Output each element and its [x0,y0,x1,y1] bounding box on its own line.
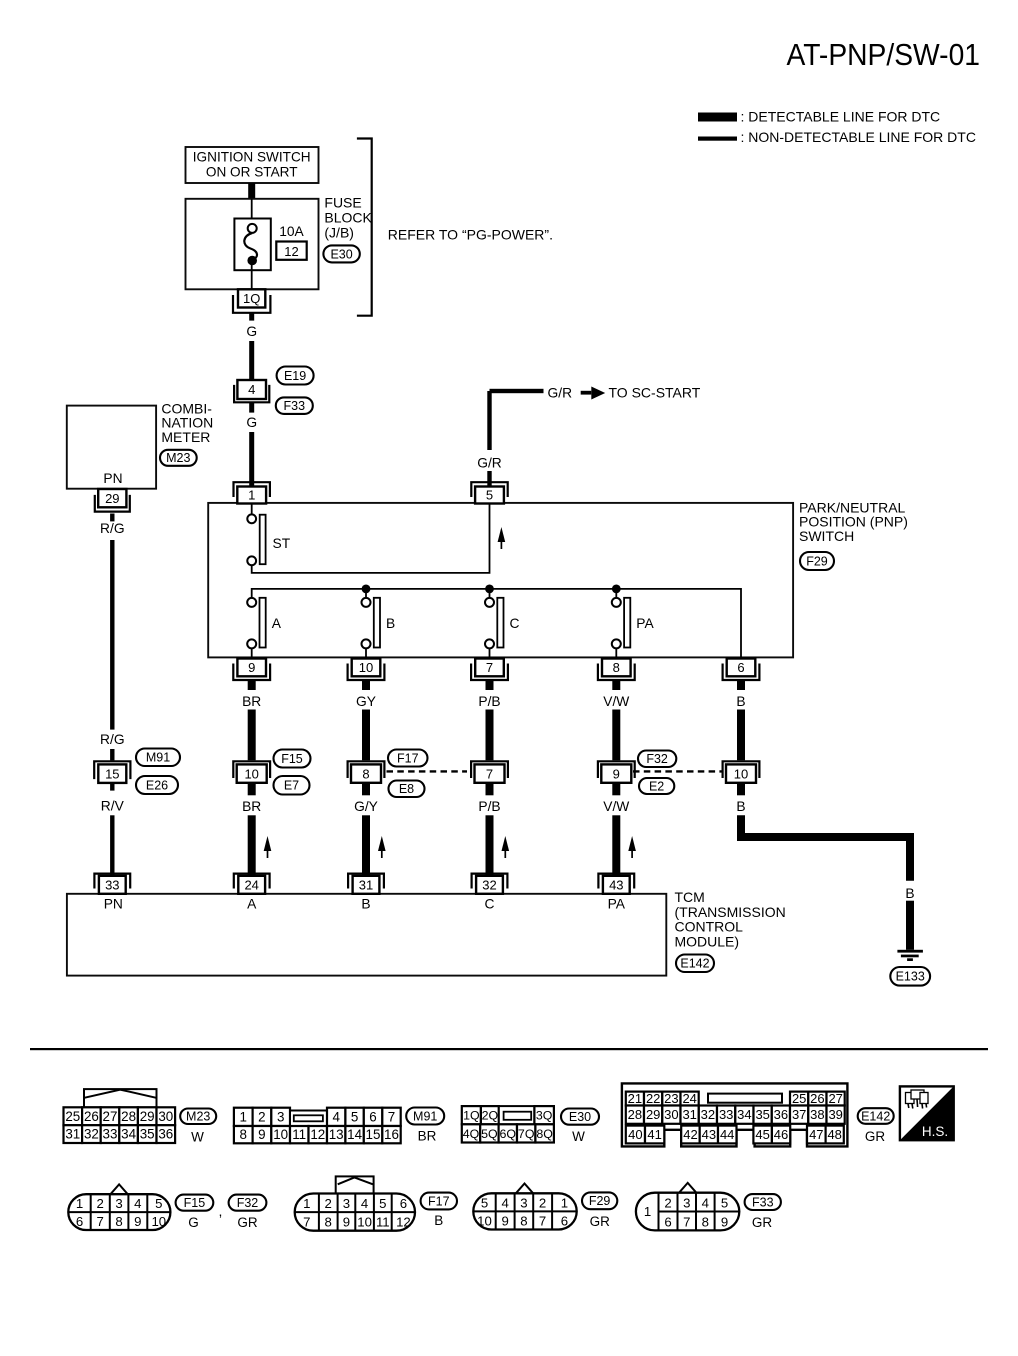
svg-text:21: 21 [628,1091,642,1106]
svg-text:8: 8 [115,1214,122,1229]
svg-text:3: 3 [683,1195,690,1210]
svg-text:A: A [247,897,257,912]
svg-text:7: 7 [486,660,493,675]
svg-text:SWITCH: SWITCH [799,528,854,544]
svg-text:R/G: R/G [100,521,125,536]
svg-text:MODULE): MODULE) [675,933,740,949]
svg-text:5: 5 [721,1195,728,1210]
svg-text:F29: F29 [806,554,828,568]
svg-text:15: 15 [105,766,119,781]
svg-text:G/R: G/R [548,386,573,401]
svg-text:E7: E7 [284,779,299,793]
svg-text:7Q: 7Q [518,1127,535,1141]
svg-text:11: 11 [376,1215,390,1230]
svg-text:34: 34 [121,1127,136,1142]
svg-text:H.S.: H.S. [922,1124,948,1139]
svg-text:ON OR START: ON OR START [206,165,298,180]
svg-text:6: 6 [737,660,744,675]
svg-text:28: 28 [121,1109,136,1124]
svg-text:33: 33 [105,878,119,893]
svg-text:E19: E19 [284,369,306,383]
svg-text:W: W [572,1129,585,1144]
svg-text:5: 5 [155,1196,162,1211]
svg-text:PN: PN [104,897,123,912]
svg-text:BR: BR [242,694,261,709]
svg-text:BR: BR [242,799,261,814]
svg-text:5Q: 5Q [481,1127,498,1141]
svg-text:1: 1 [76,1196,83,1211]
svg-text:GR: GR [865,1129,886,1144]
svg-text:G: G [246,324,257,339]
svg-text:2: 2 [664,1195,671,1210]
svg-text:10: 10 [359,660,373,675]
svg-text:V/W: V/W [603,694,629,709]
svg-text:BLOCK: BLOCK [324,209,372,225]
svg-text:8: 8 [613,660,620,675]
svg-text:FUSE: FUSE [324,194,361,210]
svg-text:A: A [272,616,282,631]
svg-text:9: 9 [721,1214,728,1229]
svg-text:2: 2 [539,1195,546,1210]
svg-text:8: 8 [520,1214,527,1229]
svg-text:,: , [219,1203,223,1219]
svg-text:32: 32 [84,1127,99,1142]
svg-text:27: 27 [103,1109,118,1124]
svg-text:6: 6 [664,1214,671,1229]
svg-text:45: 45 [755,1127,769,1142]
svg-text:F32: F32 [646,752,668,766]
svg-text:IGNITION SWITCH: IGNITION SWITCH [193,150,311,165]
svg-text:4: 4 [248,382,255,397]
svg-text:8Q: 8Q [536,1127,553,1141]
svg-text:2: 2 [258,1109,265,1124]
svg-text:E133: E133 [896,970,925,984]
svg-text:E30: E30 [569,1110,591,1124]
svg-text:M91: M91 [146,751,170,765]
svg-text:8: 8 [325,1215,332,1230]
svg-text:1Q: 1Q [463,1109,480,1123]
svg-text:1: 1 [303,1196,310,1211]
svg-text:30: 30 [158,1109,173,1124]
svg-text:G: G [188,1215,199,1230]
svg-text:10: 10 [734,766,748,781]
svg-text:35: 35 [755,1107,769,1122]
svg-text:5: 5 [351,1109,358,1124]
svg-text:10: 10 [151,1214,166,1229]
svg-text:CONTROL: CONTROL [675,919,744,935]
svg-text:27: 27 [828,1091,842,1106]
svg-text:2: 2 [325,1196,332,1211]
svg-text:15: 15 [366,1127,381,1142]
svg-text:31: 31 [65,1127,80,1142]
svg-text:8: 8 [239,1127,246,1142]
svg-text:4: 4 [702,1195,709,1210]
svg-text:36: 36 [774,1107,788,1122]
svg-text:47: 47 [809,1127,823,1142]
svg-text:1: 1 [644,1204,651,1219]
svg-text:28: 28 [628,1107,642,1122]
svg-text:12: 12 [284,244,298,259]
svg-text:AT-PNP/SW-01: AT-PNP/SW-01 [787,38,981,72]
svg-text:F33: F33 [752,1196,774,1210]
svg-text:13: 13 [329,1127,344,1142]
svg-text:R/G: R/G [100,732,125,747]
svg-text:11: 11 [292,1127,306,1142]
svg-text:36: 36 [158,1127,173,1142]
svg-text:7: 7 [539,1214,546,1229]
svg-text:F29: F29 [589,1194,611,1208]
svg-text:10: 10 [273,1127,288,1142]
svg-text:7: 7 [486,766,493,781]
svg-text:E142: E142 [680,957,709,971]
svg-text:5: 5 [486,488,493,503]
svg-text:3: 3 [520,1195,527,1210]
svg-text:4Q: 4Q [463,1127,480,1141]
svg-text:M23: M23 [186,1110,210,1124]
svg-text:43: 43 [702,1127,716,1142]
svg-text:G: G [246,415,257,430]
svg-text:2: 2 [97,1196,104,1211]
svg-text:29: 29 [646,1107,660,1122]
svg-text:G/Y: G/Y [354,799,378,814]
svg-text:10: 10 [477,1214,492,1229]
svg-text:P/B: P/B [478,694,500,709]
svg-text:: DETECTABLE LINE FOR DTC: : DETECTABLE LINE FOR DTC [741,109,941,125]
svg-text:32: 32 [482,878,496,893]
svg-text:B: B [736,799,745,814]
svg-text:GY: GY [356,694,376,709]
svg-text:9: 9 [248,660,255,675]
svg-text:1: 1 [561,1195,568,1210]
svg-text:34: 34 [737,1107,751,1122]
svg-text:W: W [191,1130,204,1145]
svg-text:5: 5 [379,1196,386,1211]
svg-text:REFER TO “PG-POWER”.: REFER TO “PG-POWER”. [388,227,553,243]
svg-text:33: 33 [103,1127,118,1142]
svg-text:3Q: 3Q [536,1109,553,1123]
svg-text:1Q: 1Q [243,291,260,306]
svg-text:12: 12 [396,1215,411,1230]
svg-text:F17: F17 [397,751,419,765]
svg-text:METER: METER [161,429,210,445]
svg-text:(TRANSMISSION: (TRANSMISSION [675,904,786,920]
svg-text:10: 10 [244,766,258,781]
svg-text:23: 23 [664,1091,678,1106]
svg-text:6: 6 [369,1109,376,1124]
svg-text:44: 44 [720,1127,734,1142]
svg-text:25: 25 [65,1109,80,1124]
svg-text:32: 32 [701,1107,715,1122]
svg-text:43: 43 [609,878,623,893]
svg-text:7: 7 [303,1215,310,1230]
svg-text:F33: F33 [284,399,306,413]
svg-text:4: 4 [134,1196,141,1211]
svg-text:(J/B): (J/B) [324,224,354,240]
svg-text:B: B [736,694,745,709]
svg-text:33: 33 [719,1107,733,1122]
svg-text:24: 24 [682,1091,696,1106]
svg-text:PA: PA [608,897,626,912]
svg-text:31: 31 [359,878,373,893]
svg-text:GR: GR [237,1215,258,1230]
svg-text:26: 26 [810,1091,824,1106]
svg-text:7: 7 [683,1214,690,1229]
svg-text:41: 41 [647,1127,661,1142]
svg-text:E26: E26 [146,778,168,792]
svg-text:B: B [434,1213,443,1228]
svg-text:C: C [510,616,520,631]
svg-text:6: 6 [561,1214,568,1229]
svg-text:9: 9 [258,1127,265,1142]
svg-text:F32: F32 [237,1196,259,1210]
svg-text:R/V: R/V [101,799,125,814]
svg-text:14: 14 [347,1127,362,1142]
svg-text:31: 31 [682,1107,696,1122]
svg-text:9: 9 [502,1214,509,1229]
svg-text:9: 9 [134,1214,141,1229]
svg-text:4: 4 [332,1109,340,1124]
svg-text:E30: E30 [330,247,352,261]
svg-text:V/W: V/W [603,799,629,814]
svg-text:38: 38 [810,1107,824,1122]
svg-text:40: 40 [628,1127,642,1142]
svg-text:F15: F15 [184,1196,206,1210]
svg-text:4: 4 [502,1195,509,1210]
svg-text:TCM: TCM [675,889,705,905]
svg-text:10: 10 [357,1215,372,1230]
svg-text:6: 6 [400,1196,407,1211]
svg-text:37: 37 [792,1107,806,1122]
svg-text:25: 25 [792,1091,806,1106]
svg-text:B: B [905,886,914,901]
svg-text:ST: ST [273,536,291,551]
svg-text:42: 42 [683,1127,697,1142]
svg-text:G/R: G/R [477,456,502,471]
svg-text:E2: E2 [649,779,664,793]
svg-text:E142: E142 [861,1109,890,1123]
svg-text:BR: BR [418,1129,437,1144]
svg-text:30: 30 [664,1107,678,1122]
svg-text:GR: GR [590,1214,611,1229]
svg-text:8: 8 [362,766,369,781]
svg-text:B: B [361,897,370,912]
svg-text:6: 6 [76,1214,83,1229]
svg-text:6Q: 6Q [500,1127,517,1141]
svg-text:GR: GR [752,1215,773,1230]
svg-text:7: 7 [97,1214,104,1229]
svg-text:C: C [485,897,495,912]
svg-text:22: 22 [646,1091,660,1106]
svg-text:26: 26 [84,1109,99,1124]
svg-text:M91: M91 [413,1109,437,1123]
svg-text:24: 24 [244,878,258,893]
svg-text:8: 8 [702,1214,709,1229]
svg-text:TO SC-START: TO SC-START [609,385,701,401]
svg-text:29: 29 [105,491,119,506]
svg-text:3: 3 [115,1196,122,1211]
svg-text:48: 48 [827,1127,841,1142]
svg-text:39: 39 [828,1107,842,1122]
svg-text:E8: E8 [399,782,414,796]
svg-text:B: B [386,616,395,631]
svg-text:3: 3 [277,1109,284,1124]
svg-text:PA: PA [636,616,654,631]
svg-text:12: 12 [310,1127,325,1142]
svg-text:PN: PN [103,471,122,486]
svg-text:1: 1 [239,1109,246,1124]
svg-text:4: 4 [361,1196,368,1211]
svg-text:F15: F15 [281,752,303,766]
svg-text:35: 35 [140,1127,155,1142]
svg-text:9: 9 [613,766,620,781]
svg-text:F17: F17 [428,1194,450,1208]
svg-text:1: 1 [248,488,255,503]
svg-text:46: 46 [774,1127,788,1142]
svg-text:: NON-DETECTABLE LINE FOR DTC: : NON-DETECTABLE LINE FOR DTC [741,129,976,145]
svg-text:3: 3 [343,1196,350,1211]
svg-text:5: 5 [481,1195,488,1210]
svg-text:P/B: P/B [478,799,500,814]
svg-text:M23: M23 [166,451,190,465]
svg-text:10A: 10A [279,224,304,239]
svg-text:16: 16 [384,1127,399,1142]
svg-text:9: 9 [343,1215,350,1230]
svg-text:2Q: 2Q [482,1109,499,1123]
svg-text:29: 29 [140,1109,155,1124]
svg-text:7: 7 [388,1109,395,1124]
